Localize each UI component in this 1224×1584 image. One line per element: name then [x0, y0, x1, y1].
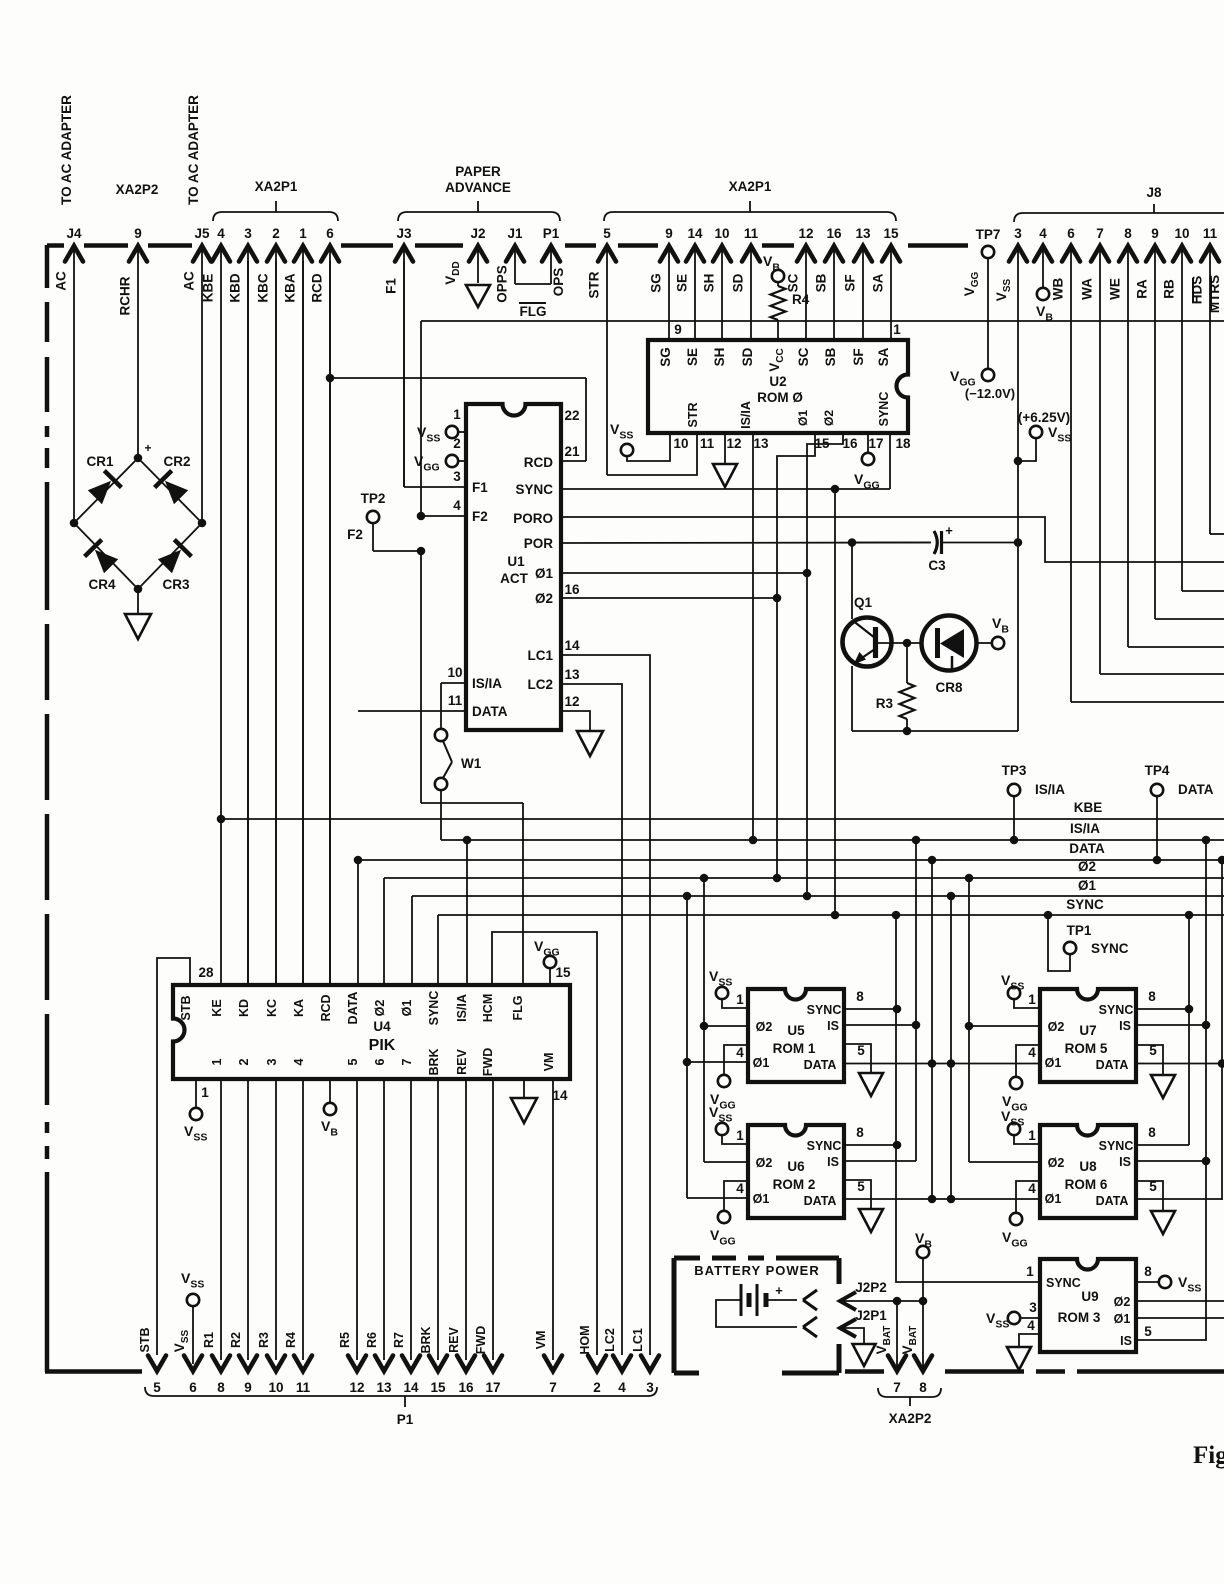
svg-text:4: 4 — [1028, 1181, 1036, 1196]
svg-text:CR2: CR2 — [163, 454, 190, 469]
wire U7 SYNC — [1136, 1008, 1189, 1010]
wire SYNC rail col1 — [896, 915, 1040, 1282]
wire WE run — [1128, 646, 1224, 648]
svg-text:SYNC: SYNC — [1099, 1003, 1134, 1017]
svg-text:Ø2: Ø2 — [1114, 1295, 1131, 1309]
svg-text:7: 7 — [1096, 226, 1104, 241]
wire KA to U4 — [302, 261, 304, 985]
svg-text:DATA: DATA — [346, 992, 360, 1025]
wire C3 row left — [852, 542, 930, 544]
svg-text:REV: REV — [455, 1048, 469, 1074]
svg-text:SG: SG — [658, 347, 673, 367]
wire phase2 to U2 rail — [561, 597, 777, 599]
svg-text:13: 13 — [855, 226, 871, 241]
wire U4 bottom pin to P1 — [275, 1079, 277, 1360]
label XA2P2 bottom brace — [878, 1388, 941, 1406]
svg-text:REV: REV — [447, 1326, 461, 1352]
wire U5 phase1 feed — [687, 1061, 748, 1063]
wire SYNC rail col2 — [1188, 915, 1190, 1145]
svg-text:13: 13 — [753, 436, 769, 451]
wire U5 DATA to U7 — [844, 1063, 1040, 1065]
wire U4 bottom pin to P1 — [220, 1079, 222, 1360]
svg-text:R3: R3 — [876, 696, 894, 711]
connector P1 pin 4 (LC2) — [613, 1356, 631, 1372]
wire RCD loop to RCD column — [561, 460, 586, 462]
svg-text:4: 4 — [292, 1058, 306, 1065]
svg-text:CR1: CR1 — [86, 454, 113, 469]
svg-text:R1: R1 — [202, 1332, 216, 1348]
svg-text:9: 9 — [244, 1380, 252, 1395]
svg-text:OPPS: OPPS — [495, 265, 510, 303]
svg-text:R7: R7 — [392, 1332, 406, 1348]
svg-text:HDS: HDS — [1190, 276, 1205, 305]
wire W1 to IS/IA bus — [440, 790, 442, 840]
svg-text:J8: J8 — [1146, 185, 1162, 200]
svg-text:11: 11 — [296, 1380, 311, 1395]
svg-text:FLG: FLG — [520, 304, 547, 319]
svg-text:DATA: DATA — [1069, 841, 1105, 856]
node phase1 junction — [803, 569, 812, 578]
svg-text:+: + — [775, 1283, 783, 1298]
svg-text:WB: WB — [1051, 278, 1066, 301]
connector P1 pin 13 (R6) — [375, 1356, 393, 1372]
svg-text:11: 11 — [700, 436, 715, 451]
wire U6 IS — [844, 1160, 916, 1162]
connector P1 pin 14 (R7) — [402, 1356, 420, 1372]
svg-text:5: 5 — [857, 1179, 865, 1194]
svg-text:TP4: TP4 — [1145, 763, 1170, 778]
svg-text:SYNC: SYNC — [1099, 1139, 1134, 1153]
connector XA2P2 pin 8 (VBAT) — [922, 1301, 924, 1371]
svg-text:DATA: DATA — [472, 704, 508, 719]
svg-text:SC: SC — [786, 273, 801, 292]
svg-text:KD: KD — [237, 999, 251, 1017]
svg-text:15: 15 — [883, 226, 899, 241]
node IS rail col2 tap — [1202, 836, 1211, 845]
svg-text:AC: AC — [182, 271, 197, 291]
wire dashed top border — [47, 243, 64, 248]
wire SYNC U1-U2 — [561, 488, 890, 490]
svg-text:14: 14 — [403, 1380, 419, 1395]
svg-text:+: + — [945, 523, 953, 538]
svg-text:R3: R3 — [257, 1332, 271, 1348]
svg-text:J2P2: J2P2 — [855, 1280, 887, 1295]
node bridge bottom — [134, 585, 143, 594]
svg-text:Ø2: Ø2 — [822, 410, 836, 426]
svg-text:ROM 1: ROM 1 — [773, 1041, 816, 1056]
svg-text:LC2: LC2 — [527, 677, 553, 692]
node SYNC rail col2 tap — [1185, 911, 1194, 920]
connector P1 pin 15 (BRK) — [429, 1356, 447, 1372]
pin VGG of U8 — [1016, 1181, 1040, 1213]
svg-text:IS: IS — [1119, 1155, 1131, 1169]
svg-text:Ø2: Ø2 — [756, 1156, 773, 1170]
wire WA run — [1100, 673, 1224, 675]
svg-text:KBD: KBD — [228, 273, 243, 302]
connector pin 14 (SE) — [686, 246, 704, 262]
node SYNC rail col1 tap — [892, 911, 901, 920]
connector XA2P1 pin 4 (KBE) — [212, 246, 230, 262]
op-amp U2 ROM 0 box — [648, 340, 908, 433]
svg-text:PIK: PIK — [369, 1037, 396, 1054]
connector J2P1 arrow — [840, 1319, 856, 1337]
svg-text:3: 3 — [1029, 1300, 1037, 1315]
svg-text:XA2P1: XA2P1 — [729, 179, 772, 194]
svg-text:SC: SC — [796, 347, 811, 366]
connector XA2P1 pin 1 (KBA) — [294, 246, 312, 262]
diode CR2 — [165, 481, 188, 504]
svg-text:R5: R5 — [338, 1332, 352, 1348]
ground at J2P1 — [853, 1344, 876, 1366]
svg-text:U4: U4 — [373, 1019, 391, 1034]
node VGG -12.0V — [982, 369, 994, 381]
wire pin12 to ground — [561, 711, 590, 731]
wire U6 phase1 feed — [687, 1197, 748, 1199]
svg-text:TP1: TP1 — [1067, 923, 1092, 938]
svg-text:VM: VM — [534, 1331, 548, 1350]
connector pin 15 (SA) — [882, 246, 900, 262]
pin VB stub of U4 — [329, 1079, 331, 1103]
svg-text:KBC: KBC — [256, 273, 271, 302]
svg-text:16: 16 — [826, 226, 842, 241]
svg-text:3: 3 — [244, 226, 252, 241]
node IS/IA tap U4 — [463, 836, 472, 845]
svg-text:4: 4 — [1028, 1045, 1036, 1060]
svg-text:WA: WA — [1080, 278, 1095, 300]
svg-text:OPS: OPS — [551, 268, 566, 297]
resistor R4 — [777, 282, 779, 286]
svg-text:8: 8 — [1148, 989, 1156, 1004]
pin VSS stub of U7 — [1008, 987, 1020, 999]
op-amp U1 ACT box — [466, 404, 561, 730]
wire Q1 collector — [851, 543, 853, 620]
wire U7 IS — [1136, 1024, 1206, 1026]
wire F2 — [421, 515, 466, 517]
node bridge left — [70, 519, 79, 528]
svg-text:KC: KC — [265, 999, 279, 1017]
wire riser U4 IS/IA — [466, 840, 468, 985]
capacitor C3 — [934, 531, 937, 554]
svg-text:IS/IA: IS/IA — [455, 994, 469, 1022]
svg-text:IS/IA: IS/IA — [739, 401, 753, 429]
svg-text:1: 1 — [1028, 1128, 1036, 1143]
node DATA rail col1 tap — [928, 856, 937, 865]
svg-text:RA: RA — [1135, 279, 1150, 299]
wire U4 bottom pin to P1 — [552, 1079, 554, 1360]
svg-text:SB: SB — [823, 347, 838, 366]
pin 5 ground of U5 — [844, 1044, 871, 1073]
wire Q1 emitter down — [851, 666, 853, 731]
svg-text:10: 10 — [714, 226, 729, 241]
svg-text:RCHR: RCHR — [118, 276, 133, 315]
node DATA rail col2 tap — [1218, 856, 1224, 865]
svg-text:ROM 5: ROM 5 — [1065, 1041, 1108, 1056]
svg-text:12: 12 — [349, 1380, 364, 1395]
diode CR8 — [922, 616, 977, 671]
wire dashed bottom border — [45, 1369, 142, 1374]
connector P1 pin 5 (STB) — [148, 1356, 166, 1372]
diode CR3 — [158, 550, 181, 573]
svg-text:WE: WE — [1108, 278, 1123, 300]
connector J2P2 arrow — [840, 1292, 856, 1310]
node bridge + terminal — [134, 454, 143, 463]
svg-text:W1: W1 — [461, 756, 482, 771]
svg-text:SH: SH — [712, 348, 727, 367]
wire U6 SYNC — [844, 1144, 897, 1146]
pin 5 ground of U8 — [1136, 1181, 1163, 1211]
connector XA2P2 pin 9 (RCHR) — [129, 246, 147, 262]
svg-text:Ø2: Ø2 — [535, 591, 553, 606]
svg-text:SE: SE — [675, 274, 690, 292]
wire dashed left border — [45, 245, 50, 288]
node phase2 rail col2 tap — [965, 874, 974, 883]
svg-text:KBE: KBE — [201, 274, 216, 303]
wire WB run — [1071, 701, 1224, 703]
svg-text:IS: IS — [827, 1155, 839, 1169]
svg-text:8: 8 — [1148, 1125, 1156, 1140]
testpoint TP1 — [1044, 911, 1053, 920]
svg-text:XA2P2: XA2P2 — [889, 1411, 932, 1426]
connector pin 16 (SB) — [825, 246, 843, 262]
svg-text:1: 1 — [453, 407, 461, 422]
connector J2 pin (VDD) — [469, 246, 487, 262]
svg-text:2: 2 — [272, 226, 280, 241]
svg-text:18: 18 — [895, 436, 911, 451]
svg-text:Ø1: Ø1 — [1078, 878, 1097, 893]
svg-text:11: 11 — [448, 693, 463, 708]
svg-text:XA2P1: XA2P1 — [255, 179, 298, 194]
op-amp U6 ROM 2 box — [748, 1125, 844, 1218]
svg-text:Ø1: Ø1 — [753, 1056, 770, 1070]
svg-text:4: 4 — [736, 1181, 744, 1196]
svg-text:8: 8 — [1144, 1264, 1152, 1279]
svg-text:4: 4 — [217, 226, 225, 241]
svg-text:1: 1 — [893, 322, 901, 337]
wire RB run — [1182, 590, 1224, 592]
svg-text:10: 10 — [268, 1380, 283, 1395]
svg-text:2: 2 — [593, 1380, 601, 1395]
svg-text:CR8: CR8 — [935, 680, 962, 695]
wire riser U4 DATA — [357, 860, 359, 985]
wire IS rail col2 — [1136, 840, 1206, 1340]
svg-text:4: 4 — [618, 1380, 626, 1395]
svg-text:IS/IA: IS/IA — [472, 676, 502, 691]
wire IS/IA rail U2 — [752, 433, 754, 840]
svg-text:3: 3 — [646, 1380, 654, 1395]
svg-text:Ø1: Ø1 — [400, 1000, 414, 1017]
node phase1 rail ROM1 tap — [683, 892, 692, 901]
pin 5 ground of U7 — [1136, 1045, 1163, 1075]
svg-text:Q1: Q1 — [854, 595, 873, 610]
svg-text:2: 2 — [237, 1058, 251, 1065]
svg-text:22: 22 — [564, 408, 579, 423]
svg-text:6: 6 — [373, 1058, 387, 1065]
svg-text:Ø2: Ø2 — [1048, 1020, 1065, 1034]
svg-text:Ø2: Ø2 — [756, 1020, 773, 1034]
svg-text:MTRS: MTRS — [1207, 275, 1222, 313]
wire U6 phase2 feed — [704, 1161, 748, 1163]
svg-text:8: 8 — [1124, 226, 1132, 241]
svg-text:ROM 2: ROM 2 — [773, 1177, 816, 1192]
node C3 left junction — [848, 538, 857, 547]
svg-text:DATA: DATA — [804, 1058, 837, 1072]
connector J8 pin 7 (WA) — [1091, 246, 1109, 262]
wire C3 row right — [943, 542, 1018, 544]
transistor Q1 — [843, 618, 892, 667]
wire U4 bottom pin to P1 — [383, 1079, 385, 1360]
svg-text:SA: SA — [876, 347, 891, 366]
svg-text:P1: P1 — [397, 1412, 414, 1427]
svg-text:ADVANCE: ADVANCE — [445, 180, 511, 195]
svg-text:Fig: Fig — [1193, 1442, 1224, 1469]
jumper W1 — [440, 683, 442, 728]
wire U5 IS — [844, 1024, 916, 1026]
wire U7 DATA — [1136, 1063, 1224, 1065]
svg-text:6: 6 — [189, 1380, 197, 1395]
svg-text:13: 13 — [376, 1380, 392, 1395]
wire riser U4 SYNC — [437, 915, 439, 985]
svg-text:3: 3 — [453, 469, 461, 484]
svg-text:SB: SB — [814, 273, 829, 292]
svg-text:U7: U7 — [1079, 1023, 1096, 1038]
svg-text:8: 8 — [856, 989, 864, 1004]
svg-text:ROM Ø: ROM Ø — [757, 390, 803, 405]
wire phase2 rail col2 — [968, 878, 970, 1162]
svg-text:SYNC: SYNC — [427, 991, 441, 1026]
svg-text:KBE: KBE — [1074, 800, 1103, 815]
svg-text:PAPER: PAPER — [455, 164, 501, 179]
svg-text:7: 7 — [893, 1380, 901, 1395]
svg-text:15: 15 — [430, 1380, 446, 1395]
svg-text:16: 16 — [564, 582, 580, 597]
connector P1 pin 16 (REV) — [457, 1356, 475, 1372]
svg-text:6: 6 — [326, 226, 334, 241]
svg-text:1: 1 — [210, 1058, 224, 1065]
node SYNC branch — [831, 485, 840, 494]
ground at U1 pin 12 — [577, 731, 603, 756]
svg-text:U2: U2 — [769, 374, 786, 389]
svg-text:IS/IA: IS/IA — [1070, 821, 1100, 836]
svg-text:RCD: RCD — [310, 273, 325, 302]
svg-text:STR: STR — [587, 271, 602, 298]
label P1 bottom brace — [145, 1387, 657, 1407]
svg-text:(+6.25V): (+6.25V) — [1018, 410, 1070, 425]
svg-text:Ø1: Ø1 — [1114, 1312, 1131, 1326]
connector P1 pin 9 (R2) — [239, 1356, 257, 1372]
node phase2 rail ROM1 tap — [700, 874, 709, 883]
connector battery plug top — [803, 1290, 817, 1310]
svg-text:J2P1: J2P1 — [855, 1308, 887, 1323]
svg-text:10: 10 — [673, 436, 688, 451]
svg-text:ROM 3: ROM 3 — [1058, 1310, 1101, 1325]
svg-text:U8: U8 — [1079, 1159, 1097, 1174]
pin VSS/VGG of U6 — [716, 1123, 728, 1135]
svg-text:8: 8 — [919, 1380, 927, 1395]
connector P1 pin 12 (R5) — [348, 1356, 366, 1372]
svg-text:R6: R6 — [365, 1332, 379, 1348]
node U5 phase2 tap — [700, 1022, 709, 1031]
node C3 right junction — [1014, 538, 1023, 547]
svg-text:RCD: RCD — [319, 994, 333, 1021]
svg-text:Ø1: Ø1 — [796, 410, 810, 426]
node phase1 rail col2 tap — [947, 892, 956, 901]
svg-text:SYNC: SYNC — [807, 1139, 842, 1153]
svg-text:Ø2: Ø2 — [1048, 1156, 1065, 1170]
svg-text:16: 16 — [458, 1380, 474, 1395]
node IS/IA tap U2 — [749, 836, 758, 845]
svg-text:5: 5 — [346, 1058, 360, 1065]
svg-text:IS/IA: IS/IA — [1035, 782, 1065, 797]
ground at J2 — [466, 285, 490, 307]
wire bus phase2 — [384, 877, 1224, 879]
svg-text:17: 17 — [485, 1380, 500, 1395]
connector J8 pin 9 (RA) — [1146, 246, 1164, 262]
wire RCD line long — [421, 320, 1224, 322]
svg-text:SYNC: SYNC — [877, 392, 891, 427]
svg-text:4: 4 — [736, 1045, 744, 1060]
svg-text:AC: AC — [54, 271, 69, 291]
connector pin 11 (SD) — [742, 246, 760, 262]
wire bridge diagonals — [74, 458, 138, 523]
svg-text:12: 12 — [726, 436, 741, 451]
svg-text:Ø1: Ø1 — [1045, 1056, 1062, 1070]
svg-text:HOM: HOM — [578, 1325, 592, 1354]
svg-text:1: 1 — [1026, 1264, 1034, 1279]
connector J8 pin 6 (WB) — [1062, 246, 1080, 262]
svg-text:9: 9 — [674, 322, 682, 337]
wire U8 SYNC — [1136, 1144, 1189, 1146]
svg-text:SF: SF — [851, 348, 866, 365]
svg-text:7: 7 — [400, 1058, 414, 1065]
diode CR1 — [88, 481, 111, 504]
svg-text:3: 3 — [1014, 226, 1022, 241]
wire bus phase1 — [412, 895, 1224, 897]
svg-text:DATA: DATA — [1096, 1194, 1129, 1208]
op-amp U9 ROM 3 box — [1040, 1259, 1136, 1352]
connector XA2P1 pin 3 (KBD) — [239, 246, 257, 262]
node SYNC bus tap — [831, 911, 840, 920]
svg-text:RB: RB — [1162, 279, 1177, 299]
svg-text:12: 12 — [564, 694, 579, 709]
svg-text:14: 14 — [552, 1088, 568, 1103]
connector J1 pin (OPPS) — [506, 246, 524, 262]
svg-text:11: 11 — [1203, 226, 1218, 241]
svg-text:1: 1 — [201, 1085, 209, 1100]
svg-text:TP2: TP2 — [361, 491, 386, 506]
svg-text:SYNC: SYNC — [807, 1003, 842, 1017]
svg-text:ACT: ACT — [500, 571, 528, 586]
connector P1 pin 17 (FWD) — [484, 1356, 502, 1372]
svg-text:STR: STR — [686, 403, 700, 428]
svg-text:4: 4 — [453, 498, 461, 513]
svg-text:28: 28 — [198, 965, 214, 980]
svg-text:PORO: PORO — [513, 511, 553, 526]
node R3 top junction — [903, 639, 912, 648]
wire U8 IS — [1136, 1160, 1206, 1162]
connector P1 pin 8 (R1) — [212, 1356, 230, 1372]
svg-text:TO AC ADAPTER: TO AC ADAPTER — [59, 95, 74, 205]
connector P1 pin 11 (R4) — [294, 1356, 312, 1372]
svg-text:SE: SE — [685, 348, 700, 366]
wire U8 DATA — [1136, 1198, 1222, 1200]
svg-text:11: 11 — [744, 226, 759, 241]
svg-text:F1: F1 — [472, 480, 488, 495]
pin 5 ground of U6 — [844, 1180, 871, 1209]
svg-text:FWD: FWD — [481, 1048, 495, 1076]
ground at U9 pin 4 — [1007, 1347, 1031, 1370]
svg-text:IS: IS — [827, 1019, 839, 1033]
wire DATA rail col2 — [1221, 860, 1223, 1200]
